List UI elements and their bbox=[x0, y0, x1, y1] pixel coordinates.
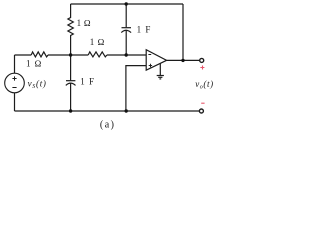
svg-text:vS(t): vS(t) bbox=[28, 79, 47, 91]
wire to inverting input bbox=[107, 54, 146, 56]
wire mid rail left bbox=[15, 54, 32, 56]
node B junction dot bbox=[125, 53, 128, 56]
wire top rail bbox=[71, 3, 183, 5]
voltage source vS circle bbox=[5, 73, 25, 93]
wire non-inverting input bbox=[126, 66, 146, 111]
svg-text:1 Ω: 1 Ω bbox=[77, 18, 91, 28]
op-amp minus input sign bbox=[148, 54, 151, 56]
wire feedback right drop bbox=[182, 4, 184, 60]
terminal top output bbox=[200, 58, 204, 62]
capacitor C2 top 1F bbox=[125, 4, 127, 27]
terminal bottom output bbox=[199, 109, 203, 113]
node A junction dot bbox=[69, 53, 72, 56]
bottom rail junction dot C1 bbox=[69, 109, 72, 112]
minus sign inside source bbox=[12, 87, 16, 89]
voltage source vS wires bbox=[14, 55, 16, 73]
svg-text:1 F: 1 F bbox=[80, 77, 95, 87]
output node junction dot bbox=[181, 59, 184, 62]
resistor R3 horizontal 1ohm bbox=[88, 52, 107, 57]
svg-text:1 Ω: 1 Ω bbox=[26, 58, 42, 68]
wire node A segment bbox=[48, 54, 88, 56]
label output minus red bbox=[201, 102, 204, 104]
plus sign inside source bbox=[12, 76, 16, 80]
svg-text:1 F: 1 F bbox=[137, 25, 152, 35]
svg-text:1 Ω: 1 Ω bbox=[90, 37, 105, 47]
op-amp plus input sign bbox=[149, 64, 152, 67]
capacitor C1 mid 1F bbox=[70, 55, 72, 80]
bottom rail junction dot plus-input bbox=[125, 109, 128, 112]
op-amp U1 triangle bbox=[146, 50, 166, 70]
wire bottom rail bbox=[15, 110, 200, 112]
resistor R1 horizontal 1ohm bbox=[31, 52, 48, 57]
svg-text:(a): (a) bbox=[100, 119, 116, 130]
svg-text:vo(t): vo(t) bbox=[195, 79, 214, 91]
label output plus red bbox=[200, 66, 204, 70]
capacitor C2 top rail junction dot bbox=[125, 2, 128, 5]
resistor R2 vertical 1ohm bbox=[68, 4, 73, 55]
ground bbox=[159, 63, 161, 75]
wire output bbox=[167, 59, 200, 61]
